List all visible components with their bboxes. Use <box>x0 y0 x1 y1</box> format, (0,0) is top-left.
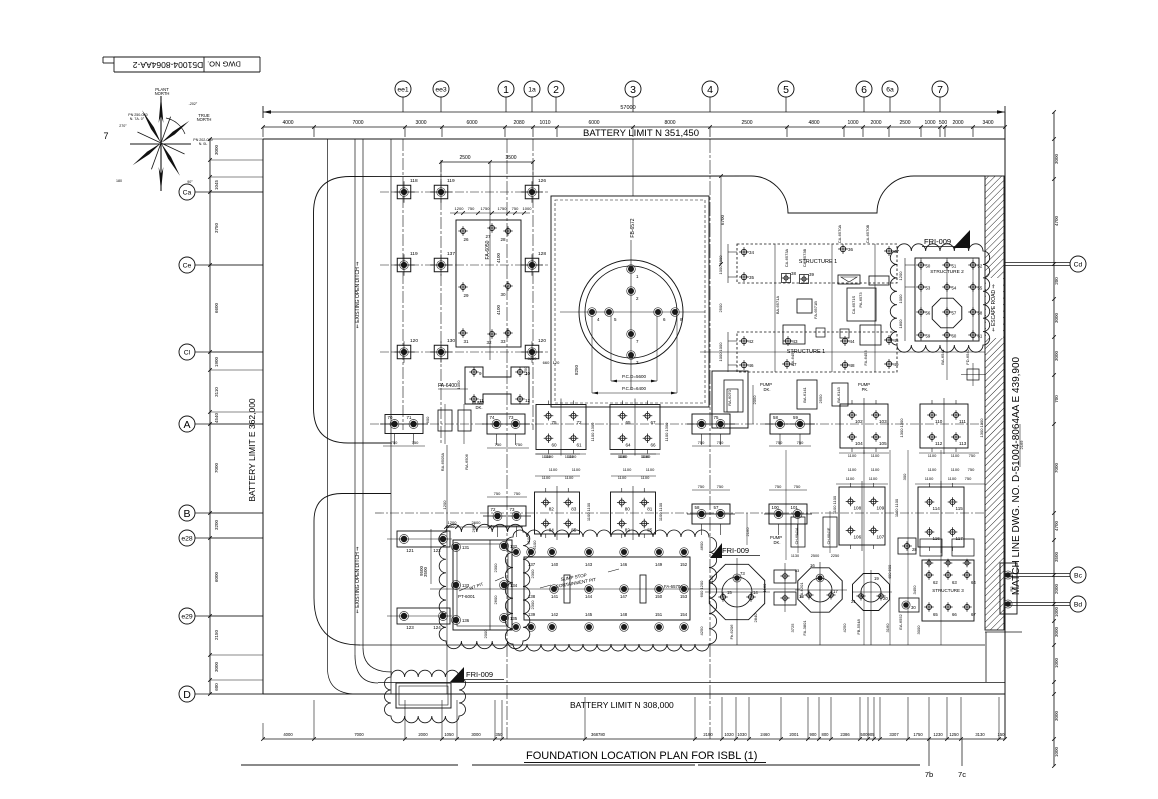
svg-text:1000: 1000 <box>1054 746 1059 757</box>
left battery limit boundary vertical <box>262 139 264 694</box>
svg-text:1200: 1200 <box>898 271 903 281</box>
svg-text:67: 67 <box>651 420 657 425</box>
svg-text:PT-6001: PT-6001 <box>458 594 476 599</box>
svg-text:-202°: -202° <box>189 102 198 106</box>
pair rects right of octagon <box>774 563 804 612</box>
svg-text:1: 1 <box>503 84 509 96</box>
svg-text:123: 123 <box>406 625 414 630</box>
svg-text:3000: 3000 <box>214 144 219 155</box>
svg-text:750: 750 <box>794 484 801 489</box>
svg-text:7: 7 <box>937 84 943 96</box>
svg-text:R5: R5 <box>1009 586 1014 592</box>
column grid bubbles (top) <box>395 81 948 112</box>
svg-text:DK.: DK. <box>764 387 771 392</box>
svg-text:135: 135 <box>510 616 518 621</box>
svg-text:1100: 1100 <box>928 467 937 472</box>
svg-text:1100: 1100 <box>542 454 551 459</box>
svg-text:150: 150 <box>998 732 1006 737</box>
svg-text:2150: 2150 <box>214 629 219 640</box>
svg-text:P.C.D=5600: P.C.D=5600 <box>622 374 647 379</box>
svg-text:D: D <box>183 689 191 701</box>
svg-text:138: 138 <box>528 594 536 599</box>
svg-text:64: 64 <box>971 580 976 585</box>
svg-text:3200: 3200 <box>214 519 219 530</box>
svg-text:111: 111 <box>959 419 966 424</box>
svg-text:e29: e29 <box>181 613 193 620</box>
svg-text:82: 82 <box>549 507 555 512</box>
svg-text:2001: 2001 <box>789 732 799 737</box>
vertical dims row B right <box>832 473 907 517</box>
svg-text:54: 54 <box>952 286 957 291</box>
svg-text:3000: 3000 <box>916 625 921 635</box>
STRUCTURE 3 rectangle <box>912 559 976 635</box>
BA-6141 rect <box>760 380 817 409</box>
svg-text:14: 14 <box>753 590 758 595</box>
dim 2500/3500 over FA-6050 <box>439 155 535 184</box>
svg-text:750: 750 <box>968 467 975 472</box>
svg-text:Bc: Bc <box>1074 572 1083 579</box>
svg-text:7000: 7000 <box>352 120 363 126</box>
svg-text:1000: 1000 <box>898 294 903 304</box>
FRI-009 flag (structure 2) <box>922 230 970 248</box>
dim 750 750 below 70/71 <box>383 440 425 446</box>
dims right of containment cloud <box>699 541 704 636</box>
svg-text:1130: 1130 <box>791 554 799 558</box>
svg-text:61: 61 <box>978 334 983 339</box>
svg-text:137: 137 <box>447 251 455 257</box>
svg-text:1000: 1000 <box>1054 606 1059 617</box>
svg-text:e28: e28 <box>181 535 193 542</box>
svg-text:1a: 1a <box>528 86 536 93</box>
svg-text:4800: 4800 <box>808 120 819 126</box>
svg-text:600 1200: 600 1200 <box>699 580 704 597</box>
svg-text:ee3: ee3 <box>435 86 447 93</box>
svg-text:NORTH: NORTH <box>155 91 170 96</box>
svg-text:⇐ EXISTING OPEN DITCH ⇒: ⇐ EXISTING OPEN DITCH ⇒ <box>355 262 361 329</box>
vertical dim right pump row <box>899 418 984 438</box>
svg-text:48: 48 <box>850 363 856 368</box>
svg-text:56: 56 <box>926 311 931 316</box>
svg-text:28: 28 <box>500 237 506 242</box>
dims 1250/3200 below grid Cl <box>523 356 560 375</box>
svg-text:BATTERY LIMIT E 362,000: BATTERY LIMIT E 362,000 <box>247 398 257 502</box>
svg-text:118: 118 <box>410 178 418 184</box>
pair foundation 72/73 row B <box>483 506 531 537</box>
svg-text:2500: 2500 <box>459 155 470 161</box>
svg-text:33: 33 <box>795 568 800 573</box>
vertical dims between row A and B <box>442 500 537 550</box>
svg-text:2190: 2190 <box>703 732 713 737</box>
svg-text:134: 134 <box>510 583 518 588</box>
sq4 114 row B right2 <box>918 481 964 553</box>
service line y645 <box>360 644 985 646</box>
interior column center lines <box>403 139 710 739</box>
svg-text:1150: 1150 <box>709 575 714 584</box>
svg-text:3307: 3307 <box>889 732 899 737</box>
svg-text:1000 1000: 1000 1000 <box>718 342 723 362</box>
svg-text:61: 61 <box>577 442 583 447</box>
foundation bolt square 119 <box>430 181 452 203</box>
foundation FA-6050 rectangle <box>456 220 521 347</box>
svg-text:154: 154 <box>680 612 688 617</box>
bar foundation 123/124 <box>387 608 452 630</box>
svg-text:149: 149 <box>655 562 663 567</box>
svg-text:142: 142 <box>551 612 559 617</box>
svg-text:4250: 4250 <box>699 626 704 636</box>
extra dim texts lower mid <box>549 467 975 472</box>
svg-text:PK.: PK. <box>862 387 869 392</box>
svg-text:1100: 1100 <box>951 453 960 458</box>
svg-text:64: 64 <box>626 442 632 447</box>
dims around PT-6001 <box>419 520 531 638</box>
foundation bolt square 120 <box>393 341 415 363</box>
PT-6001 pit rectangles <box>452 540 518 630</box>
svg-text:P.C.D=6400: P.C.D=6400 <box>622 386 647 391</box>
svg-text:63: 63 <box>952 580 957 585</box>
svg-text:RA-6070: RA-6070 <box>727 389 732 406</box>
svg-text:1230: 1230 <box>933 732 943 737</box>
pair foundation row B right 2 <box>764 504 812 535</box>
svg-text:31: 31 <box>463 339 469 344</box>
svg-text:146: 146 <box>620 562 628 567</box>
svg-text:45: 45 <box>894 338 900 343</box>
svg-text:CA-6570A: CA-6570A <box>837 224 842 243</box>
RA-6505A/RA-6506 slim foundations <box>425 404 471 471</box>
svg-text:1300 1300: 1300 1300 <box>899 418 904 438</box>
svg-text:600: 600 <box>425 416 430 423</box>
svg-text:270°: 270° <box>119 124 127 128</box>
svg-text:2550: 2550 <box>818 394 823 404</box>
svg-text:1100 1100: 1100 1100 <box>586 502 591 521</box>
svg-text:1900: 1900 <box>214 356 219 367</box>
svg-text:126: 126 <box>538 178 546 184</box>
svg-text:74: 74 <box>490 415 495 420</box>
svg-text:1250: 1250 <box>949 732 959 737</box>
svg-text:3110: 3110 <box>214 387 219 397</box>
bottom right center lines <box>786 450 941 645</box>
svg-text:17: 17 <box>833 589 838 594</box>
svg-text:6000: 6000 <box>466 120 477 126</box>
svg-text:2000: 2000 <box>952 120 963 126</box>
svg-text:34: 34 <box>749 250 755 255</box>
containment pit rectangle FA-6570A <box>430 548 800 632</box>
svg-text:1200: 1200 <box>442 500 447 510</box>
svg-text:PA-6573: PA-6573 <box>858 292 863 308</box>
svg-text:1100: 1100 <box>951 467 960 472</box>
PUMP DK label <box>472 400 484 410</box>
svg-text:1750: 1750 <box>498 206 508 211</box>
svg-text:73: 73 <box>740 571 745 576</box>
svg-text:1100 1300: 1100 1300 <box>590 422 595 441</box>
svg-text:106: 106 <box>854 535 862 540</box>
svg-text:105: 105 <box>879 441 887 446</box>
foundation bolt square 119 <box>393 254 415 276</box>
svg-text:8250: 8250 <box>574 364 579 375</box>
svg-text:FOUNDATION LOCATION PLAN FOR I: FOUNDATION LOCATION PLAN FOR ISBL (1) <box>526 750 757 762</box>
svg-text:4250: 4250 <box>842 623 847 633</box>
svg-text:1100 1100: 1100 1100 <box>894 498 899 517</box>
svg-text:107: 107 <box>877 535 885 540</box>
row B center line <box>375 512 985 514</box>
svg-text:2600: 2600 <box>471 523 476 533</box>
svg-text:⇐ ESCAPE ROAD ⇒: ⇐ ESCAPE ROAD ⇒ <box>991 284 997 331</box>
svg-text:4700: 4700 <box>1054 520 1059 531</box>
dim 2169 vertical right <box>1019 424 1024 467</box>
svg-text:1100: 1100 <box>848 467 857 472</box>
svg-text:152: 152 <box>680 562 688 567</box>
svg-text:6600: 6600 <box>214 302 219 313</box>
foundation bolt square 120 <box>521 341 543 363</box>
svg-text:119: 119 <box>447 178 455 184</box>
svg-text:120: 120 <box>538 338 546 344</box>
svg-text:114: 114 <box>933 506 941 511</box>
2160 dim and PUMP DK row B <box>745 513 782 545</box>
svg-text:150: 150 <box>655 594 663 599</box>
svg-text:750: 750 <box>514 491 521 496</box>
sq4 82/83 row B <box>535 486 580 540</box>
svg-text:STRUCTURE 3: STRUCTURE 3 <box>932 588 964 593</box>
svg-text:350: 350 <box>496 732 504 737</box>
svg-text:38: 38 <box>791 271 797 276</box>
svg-text:1100: 1100 <box>572 467 581 472</box>
right dimension tick line <box>1052 110 1059 768</box>
octagon foundation FB-5548 <box>842 570 892 645</box>
svg-text:750: 750 <box>775 484 782 489</box>
svg-text:33: 33 <box>500 339 506 344</box>
svg-text:BATTERY LIMIT N 351,450: BATTERY LIMIT N 351,450 <box>583 128 699 139</box>
svg-text:67: 67 <box>971 612 976 617</box>
svg-text:80: 80 <box>625 507 631 512</box>
svg-text:Cl: Cl <box>184 349 191 356</box>
svg-text:Ce: Ce <box>183 262 192 269</box>
ditch outlet curves at bottom <box>355 655 378 683</box>
svg-text:62: 62 <box>933 580 938 585</box>
svg-text:1100: 1100 <box>948 476 957 481</box>
svg-text:FA-6400: FA-6400 <box>438 383 457 389</box>
svg-text:30: 30 <box>911 605 916 610</box>
svg-text:1000: 1000 <box>523 206 533 211</box>
svg-text:FRI-009: FRI-009 <box>924 237 951 246</box>
svg-text:Bd: Bd <box>1074 601 1083 608</box>
svg-text:75: 75 <box>714 415 719 420</box>
svg-text:2500: 2500 <box>718 303 723 313</box>
svg-text:102: 102 <box>855 419 863 424</box>
svg-text:73: 73 <box>509 415 514 420</box>
vertical dims between pump sqs <box>590 422 669 441</box>
svg-text:145: 145 <box>585 612 593 617</box>
PCD dims <box>592 316 677 394</box>
FRI-009 flag (containment) <box>710 543 760 558</box>
svg-text:112: 112 <box>935 441 943 446</box>
svg-text:905: 905 <box>868 732 876 737</box>
svg-text:750: 750 <box>965 476 972 481</box>
svg-text:9500: 9500 <box>419 565 424 576</box>
svg-text:⇐ EXISTING OPEN DITCH ⇒: ⇐ EXISTING OPEN DITCH ⇒ <box>355 547 361 614</box>
STRUCTURE 2 rectangle <box>898 258 985 386</box>
svg-text:4100: 4100 <box>496 252 501 263</box>
foundation bolt square 118 <box>393 181 415 203</box>
title FOUNDATION LOCATION PLAN <box>241 750 920 765</box>
svg-text:300: 300 <box>902 473 907 480</box>
svg-text:DWG NO.: DWG NO. <box>207 60 241 69</box>
svg-text:500: 500 <box>939 120 948 126</box>
svg-text:6a: 6a <box>886 86 894 93</box>
octagon foundation Fb-6206 <box>705 558 770 645</box>
svg-text:100: 100 <box>772 505 780 510</box>
svg-text:81: 81 <box>647 507 653 512</box>
BA-6143 rect <box>818 382 870 406</box>
svg-text:58: 58 <box>695 505 700 510</box>
svg-text:BA-6541: BA-6541 <box>940 348 945 364</box>
svg-text:BA-6143: BA-6143 <box>836 386 841 402</box>
svg-text:119: 119 <box>410 251 418 257</box>
svg-text:57: 57 <box>952 311 957 316</box>
svg-text:7000: 7000 <box>214 462 219 473</box>
svg-text:CA-6573B: CA-6573B <box>802 248 807 267</box>
svg-text:FRI-009: FRI-009 <box>722 546 749 555</box>
svg-text:750: 750 <box>512 206 519 211</box>
sq4 80/81 row B <box>611 486 656 540</box>
svg-text:60: 60 <box>952 334 957 339</box>
bottom cloud foundation <box>385 670 466 723</box>
svg-text:57: 57 <box>714 505 719 510</box>
sq4 foundation 110/111 <box>920 398 968 454</box>
svg-text:1300 1300: 1300 1300 <box>979 418 984 438</box>
svg-text:110: 110 <box>935 419 943 424</box>
PT-6001 cloud <box>439 524 530 648</box>
pair foundation row B right 1 <box>687 504 735 535</box>
svg-text:2840: 2840 <box>753 613 758 623</box>
foundation bolt square 126 <box>521 181 543 203</box>
svg-text:3450: 3450 <box>912 585 917 595</box>
small attachments below 114 <box>920 539 974 556</box>
svg-text:109: 109 <box>877 506 885 511</box>
svg-text:2160: 2160 <box>745 527 750 537</box>
svg-text:18: 18 <box>799 594 804 599</box>
svg-text:3000: 3000 <box>471 732 481 737</box>
svg-text:CH-6841A: CH-6841A <box>795 527 799 544</box>
svg-text:750: 750 <box>969 453 976 458</box>
svg-text:124: 124 <box>433 625 441 630</box>
svg-text:16: 16 <box>810 563 815 568</box>
svg-text:3500: 3500 <box>1054 551 1059 562</box>
svg-text:26: 26 <box>463 237 469 242</box>
svg-text:55: 55 <box>978 286 983 291</box>
row grid bubbles (right) <box>1005 256 1086 612</box>
svg-text:75: 75 <box>552 420 558 425</box>
service line y682 <box>378 682 1005 684</box>
escape road hatched strip <box>985 176 1022 682</box>
svg-text:CH-6841E: CH-6841E <box>827 527 831 544</box>
svg-text:RA-6505A: RA-6505A <box>440 452 445 471</box>
STRUCTURE 1 lower rectangle <box>700 332 985 372</box>
small foundation 28 <box>887 538 917 579</box>
svg-text:28: 28 <box>912 547 917 552</box>
slim pump rects row B <box>791 511 837 553</box>
svg-text:1050: 1050 <box>456 380 461 390</box>
svg-text:49: 49 <box>894 362 900 367</box>
pump row center line A <box>370 423 985 425</box>
svg-text:3000: 3000 <box>1054 350 1059 361</box>
svg-text:FA-6050: FA-6050 <box>485 240 491 259</box>
svg-text:EA-6552: EA-6552 <box>898 613 903 629</box>
svg-text:750: 750 <box>717 440 724 445</box>
svg-text:1200: 1200 <box>455 206 465 211</box>
svg-text:3: 3 <box>630 84 636 96</box>
svg-text:NORTH: NORTH <box>197 117 212 122</box>
dim 6700 vertical right of square <box>719 174 725 266</box>
svg-text:BA-6141: BA-6141 <box>802 386 807 402</box>
svg-text:2080: 2080 <box>513 120 524 126</box>
svg-text:750: 750 <box>494 491 501 496</box>
svg-text:44: 44 <box>850 339 856 344</box>
svg-text:Fb-6206: Fb-6206 <box>729 624 734 640</box>
svg-text:200: 200 <box>1054 277 1059 285</box>
svg-text:2460: 2460 <box>760 732 770 737</box>
svg-text:6: 6 <box>861 84 867 96</box>
svg-text:1100: 1100 <box>925 476 934 481</box>
svg-text:1100: 1100 <box>871 453 880 458</box>
svg-text:35: 35 <box>749 275 755 280</box>
structure 1 infill foundations <box>718 244 881 372</box>
svg-text:FA-3801: FA-3801 <box>802 620 807 636</box>
svg-text:42: 42 <box>749 339 755 344</box>
svg-text:59: 59 <box>793 415 798 420</box>
svg-text:65: 65 <box>626 420 632 425</box>
match line foundation pair <box>1000 563 1017 614</box>
svg-text:800: 800 <box>822 732 830 737</box>
containment pit cloud <box>505 530 716 651</box>
svg-text:FB-6572: FB-6572 <box>630 218 636 237</box>
FB-6572 foundation square <box>551 196 709 407</box>
svg-text:750: 750 <box>516 442 523 447</box>
bottom dimension line <box>261 697 1007 741</box>
svg-text:3200: 3200 <box>528 356 538 361</box>
svg-text:73: 73 <box>510 507 515 512</box>
svg-text:2500: 2500 <box>899 120 910 126</box>
svg-text:71: 71 <box>407 415 412 420</box>
svg-text:1030: 1030 <box>737 732 747 737</box>
svg-text:DK.: DK. <box>774 540 781 545</box>
svg-text:51: 51 <box>952 264 957 269</box>
svg-text:4100: 4100 <box>496 304 501 315</box>
FRI-009 flag (bottom) <box>450 667 504 682</box>
svg-text:FD-6542: FD-6542 <box>965 348 970 364</box>
svg-text:D51004-8064AA-2: D51004-8064AA-2 <box>133 60 204 70</box>
svg-text:36: 36 <box>848 247 854 252</box>
svg-text:1100: 1100 <box>623 467 632 472</box>
svg-text:750: 750 <box>495 442 502 447</box>
svg-text:5: 5 <box>783 84 789 96</box>
svg-text:CA-6571S: CA-6571S <box>851 295 856 314</box>
title block (upside-down, top-left) <box>103 57 260 72</box>
svg-text:72: 72 <box>577 420 583 425</box>
svg-text:58: 58 <box>773 415 778 420</box>
dim row above FA-6050 <box>450 206 532 215</box>
svg-text:1750: 1750 <box>913 732 923 737</box>
svg-text:Cd: Cd <box>1074 261 1083 268</box>
svg-text:148: 148 <box>620 612 628 617</box>
svg-text:2169: 2169 <box>1019 440 1024 450</box>
svg-text:131: 131 <box>462 545 470 550</box>
svg-text:147: 147 <box>620 594 628 599</box>
svg-text:CA-6570B: CA-6570B <box>865 224 870 243</box>
svg-text:A: A <box>183 419 190 431</box>
svg-text:4600: 4600 <box>699 541 704 551</box>
bottom battery limit line <box>263 694 1005 710</box>
svg-text:3400: 3400 <box>982 120 993 126</box>
STRUCTURE 2 cloud <box>890 244 989 352</box>
